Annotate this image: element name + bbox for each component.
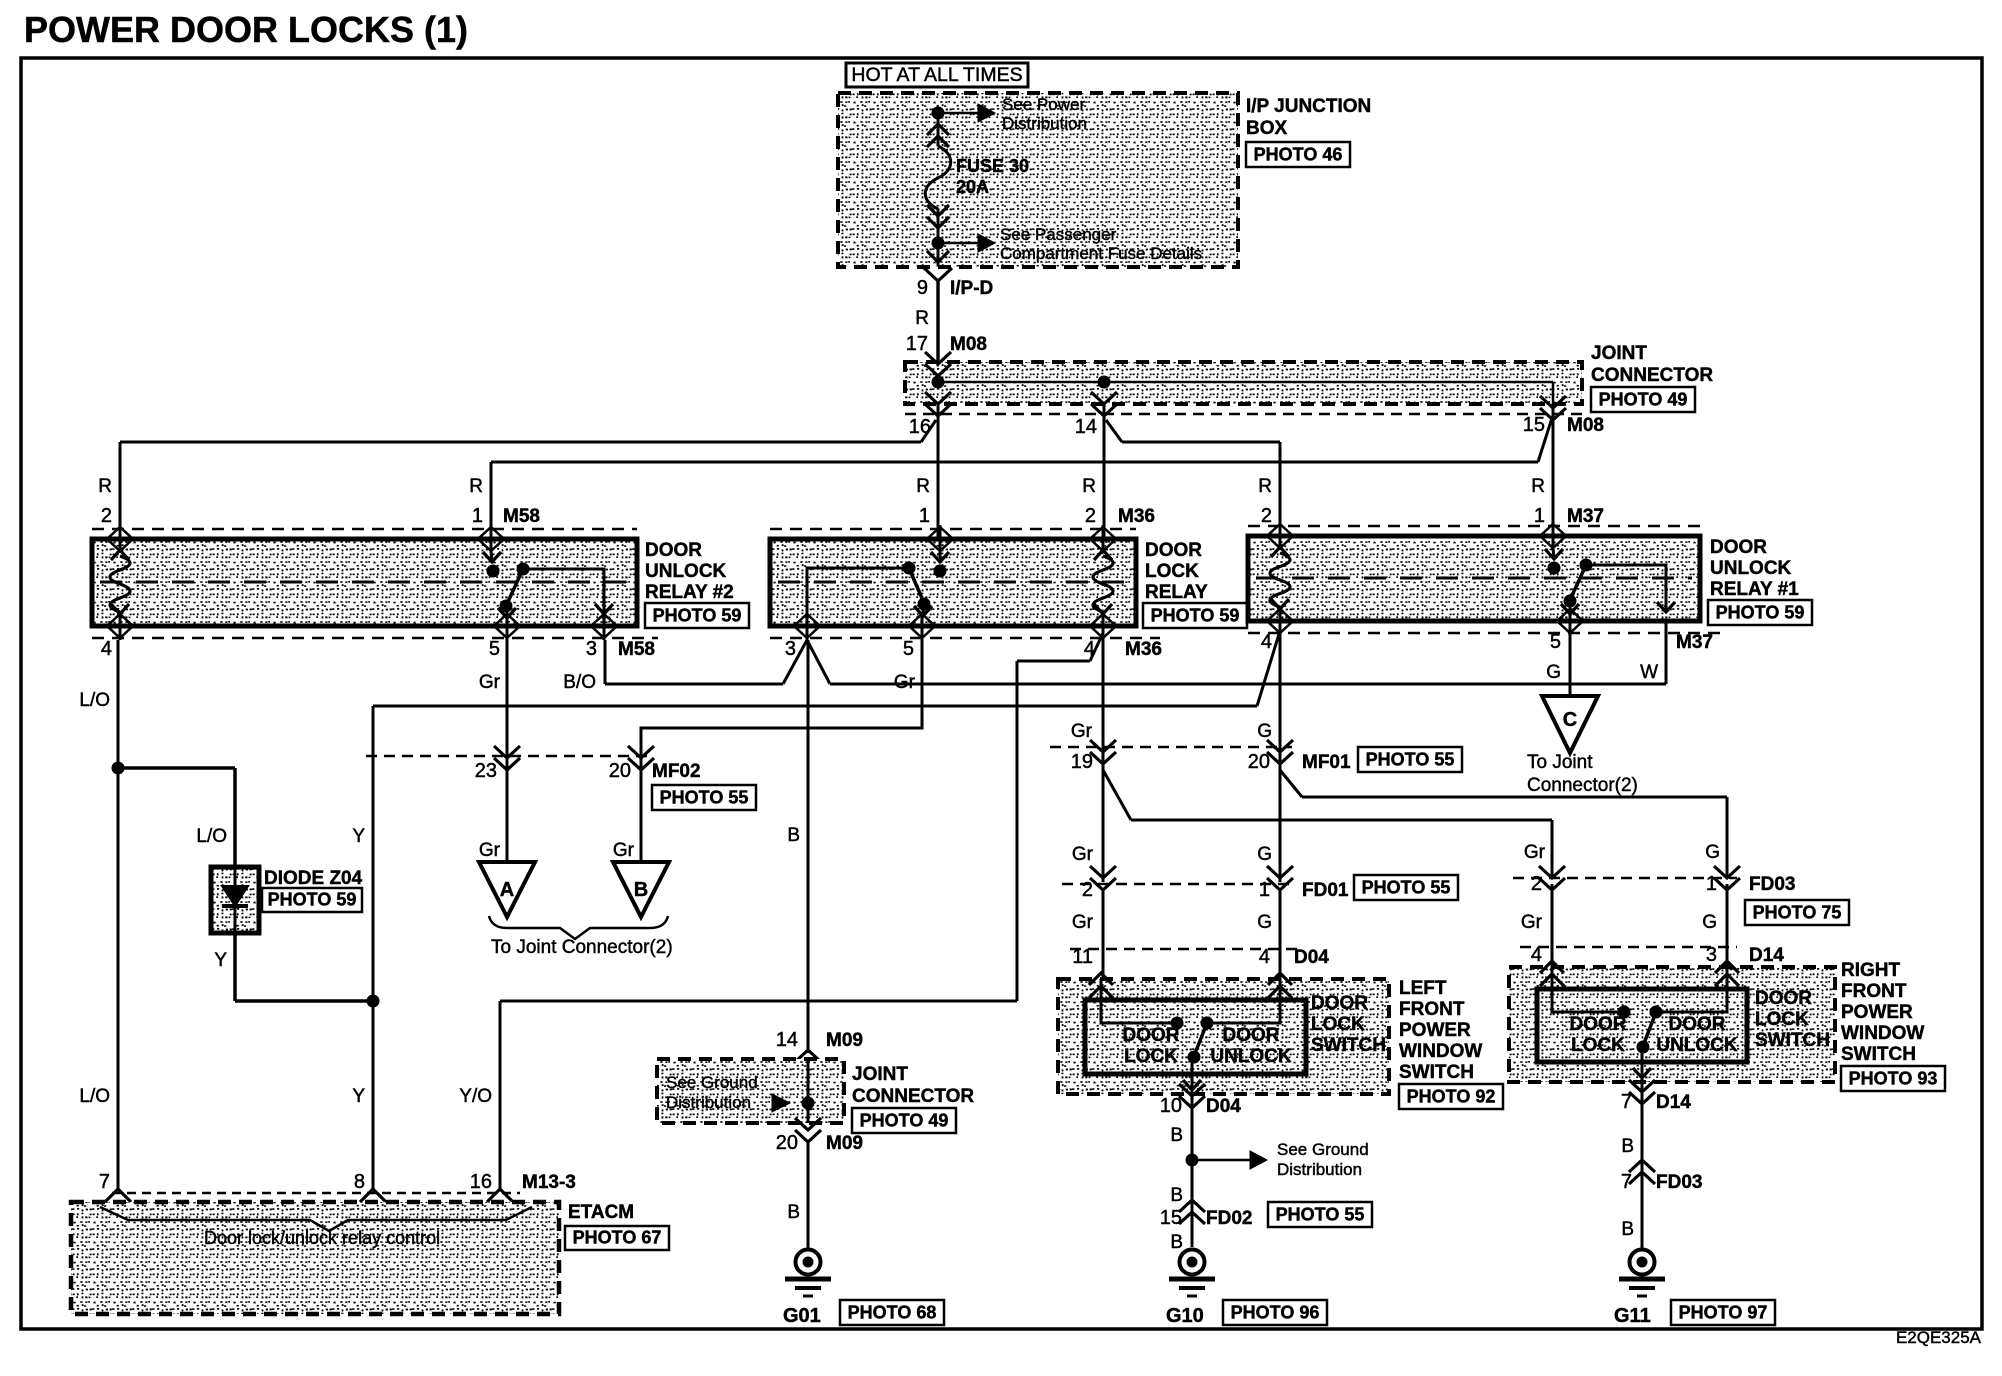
svg-text:DOOR: DOOR [1755, 988, 1812, 1009]
svg-text:M09: M09 [826, 1030, 863, 1051]
svg-text:Gr: Gr [1521, 912, 1543, 933]
wire G M36-4 straight down to MF01-19 [1102, 633, 1105, 882]
node diode branch [112, 762, 125, 775]
svg-text:20: 20 [776, 1132, 798, 1154]
svg-text:4: 4 [1261, 631, 1272, 653]
pin 1 M36 arrow [939, 525, 942, 553]
relay #2 coil [111, 550, 129, 560]
photo ref PHOTO 55 MF01 [1358, 747, 1462, 772]
svg-text:2: 2 [1085, 505, 1096, 527]
pin 1 M58 arrow [490, 525, 493, 553]
svg-text:PHOTO 92: PHOTO 92 [1407, 1087, 1496, 1107]
svg-text:SWITCH: SWITCH [1311, 1035, 1386, 1056]
svg-text:Distribution: Distribution [666, 1093, 751, 1112]
svg-text:BOX: BOX [1246, 118, 1288, 139]
wire fuse to lower tap [937, 209, 940, 265]
svg-text:20: 20 [609, 760, 631, 782]
svg-text:PHOTO 55: PHOTO 55 [1366, 750, 1455, 770]
pin 5 M37 [1569, 607, 1572, 635]
svg-text:23: 23 [475, 760, 497, 782]
svg-text:DOOR: DOOR [1123, 1025, 1180, 1046]
pin 4 D04 entry [1268, 973, 1292, 998]
pin 16 M13-3 entry [487, 1189, 513, 1215]
connector chevrons above fuse [927, 124, 949, 135]
ground G10 [1180, 1250, 1205, 1275]
svg-text:LOCK: LOCK [1755, 1009, 1809, 1030]
svg-text:M08: M08 [950, 334, 987, 355]
svg-text:Connector(2): Connector(2) [1527, 775, 1638, 796]
svg-text:R: R [1258, 476, 1272, 497]
svg-text:B: B [1170, 1232, 1183, 1253]
svg-text:CONNECTOR: CONNECTOR [852, 1086, 974, 1107]
photo ref PHOTO 59 M37 [1708, 600, 1812, 625]
svg-text:L/O: L/O [79, 1086, 110, 1107]
photo ref PHOTO 67 [565, 1226, 669, 1250]
svg-text:PHOTO 67: PHOTO 67 [573, 1228, 662, 1248]
svg-text:2: 2 [1261, 505, 1272, 527]
svg-text:3: 3 [1706, 944, 1717, 966]
svg-text:SWITCH: SWITCH [1755, 1030, 1830, 1051]
wire to pin 10 D04 [1191, 1057, 1194, 1247]
wire ETACM-8 / M37-4 net (long horizontal) [373, 705, 1257, 708]
fuse FUSE 30 20A [925, 146, 951, 209]
svg-text:UNLOCK: UNLOCK [1710, 558, 1792, 579]
wire to diode Z04 [118, 766, 235, 770]
svg-text:L/O: L/O [196, 826, 227, 847]
node Y junction [367, 995, 380, 1008]
svg-text:D14: D14 [1656, 1092, 1691, 1113]
svg-text:5: 5 [489, 638, 500, 660]
photo ref PHOTO 55 MF02 [652, 785, 756, 810]
left switch internal wires [1101, 979, 1171, 1023]
relay M37 switch contacts [1548, 562, 1561, 575]
photo ref PHOTO 55 FD02 [1268, 1202, 1372, 1227]
pin 7 M13-3 entry [105, 1189, 131, 1215]
node bus junction 16 [932, 376, 945, 389]
relay M37 coil [1271, 547, 1289, 557]
svg-text:7: 7 [1621, 1091, 1632, 1113]
wire B to G01 [807, 1140, 810, 1249]
connector FD03 pin 1 [1714, 866, 1740, 890]
wire to pin 7 D14 [1641, 1047, 1644, 1249]
wire pin14 to M36 pin2 and M37 pin2 (R) [1103, 404, 1106, 539]
relay box DOOR UNLOCK RELAY #2 [92, 528, 637, 531]
connector MF02 dashed line [366, 755, 648, 758]
svg-text:R: R [915, 308, 929, 329]
wire through joint connector [807, 1059, 810, 1123]
svg-text:MF01: MF01 [1302, 752, 1351, 773]
svg-text:CONNECTOR: CONNECTOR [1591, 365, 1713, 386]
svg-text:9: 9 [917, 277, 928, 299]
svg-text:POWER DOOR LOCKS (1): POWER DOOR LOCKS (1) [24, 9, 468, 50]
connector MF02 pin 20 [628, 746, 654, 770]
connector mating dashed line [905, 413, 1582, 416]
svg-text:PHOTO 59: PHOTO 59 [1151, 606, 1240, 626]
ground G01 [796, 1250, 821, 1275]
connector D14 dashed line [1520, 946, 1737, 949]
svg-text:FUSE 30: FUSE 30 [956, 156, 1029, 176]
svg-text:Distribution: Distribution [1277, 1160, 1362, 1179]
connector FD01 pin 2 [1090, 866, 1116, 890]
pin 2 M37 [1279, 522, 1282, 550]
svg-text:4: 4 [101, 638, 112, 660]
photo ref PHOTO 59 relay#2 [645, 603, 749, 628]
svg-text:See Passenger: See Passenger [1000, 225, 1117, 244]
svg-text:5: 5 [1550, 631, 1561, 653]
svg-text:A: A [500, 879, 514, 901]
svg-text:4: 4 [1259, 946, 1270, 968]
diode Z04 [211, 867, 259, 933]
svg-text:17: 17 [906, 333, 928, 355]
pin 8 M13-3 entry [360, 1189, 386, 1215]
svg-text:PHOTO 68: PHOTO 68 [848, 1303, 937, 1323]
branch MF01-20 to FD03-1 (G) [1280, 770, 1302, 797]
pin 5 M58 [506, 612, 509, 640]
wire L/O M58-4 to ETACM-7 [117, 640, 120, 1190]
svg-text:PHOTO 49: PHOTO 49 [860, 1111, 949, 1131]
wire Y/O jog M36-4 to ETACM-16 [1090, 633, 1103, 661]
svg-text:Y: Y [352, 1086, 365, 1107]
svg-text:Gr: Gr [479, 840, 501, 861]
svg-text:PHOTO 97: PHOTO 97 [1679, 1303, 1768, 1323]
svg-text:PHOTO 75: PHOTO 75 [1753, 903, 1842, 923]
svg-text:Y: Y [352, 826, 365, 847]
connector D04 pin 10 [1179, 1084, 1205, 1108]
pin 5 M36 [921, 612, 924, 640]
switch box LEFT FRONT POWER WINDOW SWITCH [1058, 979, 1389, 1094]
wire I/P-D to M08 pin 17 [936, 281, 939, 376]
ETACM box [71, 1202, 559, 1314]
svg-text:M37: M37 [1567, 506, 1604, 527]
svg-text:7: 7 [99, 1171, 110, 1193]
svg-text:M36: M36 [1118, 506, 1155, 527]
connector-to-joint triangle A [479, 862, 535, 917]
relay M36 switch contacts [934, 565, 947, 578]
svg-text:8: 8 [354, 1171, 365, 1193]
svg-text:POWER: POWER [1399, 1020, 1471, 1041]
svg-text:PHOTO 49: PHOTO 49 [1599, 390, 1688, 410]
svg-text:PHOTO 59: PHOTO 59 [653, 606, 742, 626]
svg-text:DOOR: DOOR [645, 540, 702, 561]
svg-text:M09: M09 [826, 1133, 863, 1154]
svg-text:10: 10 [1160, 1095, 1182, 1117]
svg-text:R: R [1531, 476, 1545, 497]
pin 4 M36 [1102, 612, 1105, 640]
svg-text:3: 3 [586, 638, 597, 660]
svg-text:C: C [1563, 709, 1577, 731]
svg-text:FRONT: FRONT [1399, 999, 1465, 1020]
connector FD03 dashed line [1513, 877, 1737, 880]
pin 3 M58 [603, 612, 606, 640]
wires FD01 to D04 [1102, 890, 1105, 979]
pin 2 M58 [119, 525, 122, 553]
arrow See Ground Distribution (right) [1192, 1159, 1250, 1162]
svg-text:I/P JUNCTION: I/P JUNCTION [1246, 96, 1371, 117]
svg-text:PHOTO 55: PHOTO 55 [1362, 878, 1451, 898]
svg-text:LEFT: LEFT [1399, 978, 1447, 999]
svg-text:RELAY: RELAY [1145, 582, 1208, 603]
svg-text:WINDOW: WINDOW [1841, 1023, 1924, 1044]
svg-text:Y: Y [214, 950, 227, 971]
photo ref PHOTO 93 [1841, 1066, 1945, 1091]
joint connector box (top) [905, 362, 1582, 404]
node bottom joint connector [802, 1097, 815, 1110]
svg-text:I/P-D: I/P-D [950, 278, 993, 299]
node power distribution tap [932, 107, 945, 120]
svg-text:DOOR: DOOR [1710, 537, 1767, 558]
connector D14 pin 7 [1629, 1080, 1655, 1104]
svg-text:FD03: FD03 [1656, 1172, 1702, 1193]
wire M58 pin1 to M08 pin15 (R) [491, 461, 1538, 464]
svg-text:JOINT: JOINT [1591, 343, 1647, 364]
branch MF01-19 to FD03-2 (Gr) [1103, 770, 1131, 820]
pin 3 M36 [806, 612, 809, 640]
svg-text:15: 15 [1160, 1207, 1182, 1229]
svg-text:Compartment Fuse Details: Compartment Fuse Details [1000, 244, 1202, 263]
svg-text:M13-3: M13-3 [522, 1172, 576, 1193]
pin 14 M08 exit chevron [1091, 392, 1117, 416]
node bus junction 14 [1098, 376, 1111, 389]
svg-text:2: 2 [1531, 873, 1542, 895]
connector FD02 pin 15 [1179, 1200, 1205, 1224]
svg-text:M37: M37 [1676, 632, 1713, 653]
wire contact to pin 3 [523, 569, 604, 612]
svg-text:D04: D04 [1294, 947, 1329, 968]
relay box DOOR LOCK RELAY [770, 528, 1136, 531]
svg-text:Gr: Gr [1072, 844, 1094, 865]
switch box RIGHT FRONT POWER WINDOW SWITCH [1509, 967, 1835, 1082]
relay M36 coil [1094, 550, 1112, 560]
wire contact to pin 5 [506, 606, 507, 616]
svg-text:UNLOCK: UNLOCK [1656, 1035, 1738, 1056]
svg-text:B: B [1621, 1219, 1634, 1240]
svg-text:4: 4 [1531, 944, 1542, 966]
svg-text:7: 7 [1621, 1171, 1632, 1193]
svg-text:PHOTO 93: PHOTO 93 [1849, 1069, 1938, 1089]
svg-text:19: 19 [1071, 751, 1093, 773]
svg-text:11: 11 [1072, 946, 1093, 968]
photo ref PHOTO 68 [840, 1300, 944, 1325]
pin 4 M58 [119, 612, 122, 640]
connector FD03 pin 2 [1539, 866, 1565, 890]
connector FD01 dashed line [1062, 883, 1295, 886]
svg-text:B: B [787, 825, 800, 846]
svg-text:D04: D04 [1206, 1096, 1241, 1117]
svg-text:PHOTO 59: PHOTO 59 [1716, 603, 1805, 623]
svg-text:20: 20 [1248, 751, 1270, 773]
svg-text:14: 14 [776, 1029, 798, 1051]
node ground distribution tap [1186, 1154, 1199, 1167]
svg-text:DOOR: DOOR [1223, 1025, 1280, 1046]
svg-text:DOOR: DOOR [1311, 993, 1368, 1014]
svg-text:RELAY #2: RELAY #2 [645, 582, 734, 603]
svg-text:G10: G10 [1166, 1305, 1204, 1327]
svg-text:Gr: Gr [1071, 721, 1093, 742]
svg-text:3: 3 [785, 638, 796, 660]
svg-text:POWER: POWER [1841, 1002, 1913, 1023]
svg-text:D14: D14 [1749, 945, 1784, 966]
svg-text:SWITCH: SWITCH [1841, 1044, 1916, 1065]
arrow to See Passenger Compartment Fuse Details [938, 242, 978, 245]
photo ref PHOTO 59 M36 [1143, 603, 1247, 628]
svg-text:16: 16 [470, 1171, 492, 1193]
photo ref PHOTO 55 FD01 [1354, 875, 1458, 900]
svg-text:B/O: B/O [563, 672, 596, 693]
arrow into joint connector [772, 1094, 790, 1112]
svg-text:MF02: MF02 [652, 761, 701, 782]
joint connector bus wire [938, 381, 1553, 384]
photo ref PHOTO 59 diode [262, 888, 362, 912]
svg-text:LOCK: LOCK [1311, 1014, 1365, 1035]
ETACM connector dashed line [112, 1192, 520, 1195]
svg-text:WINDOW: WINDOW [1399, 1041, 1482, 1062]
svg-text:M58: M58 [618, 639, 655, 660]
svg-text:1: 1 [1534, 505, 1545, 527]
svg-text:LOCK: LOCK [1124, 1046, 1178, 1067]
connector chevrons below fuse [927, 205, 949, 216]
svg-text:LOCK: LOCK [1571, 1035, 1625, 1056]
wire M37-4 down to MF01-20 [1279, 633, 1282, 882]
svg-text:JOINT: JOINT [852, 1064, 908, 1085]
label HOT AT ALL TIMES [846, 63, 1028, 87]
svg-text:R: R [98, 476, 112, 497]
pin 15 M08 exit chevron [1540, 396, 1566, 420]
svg-text:2: 2 [101, 505, 112, 527]
svg-text:RIGHT: RIGHT [1841, 960, 1901, 981]
door lock switch box (right) [1537, 989, 1747, 1062]
svg-text:B: B [1170, 1125, 1183, 1146]
connector MF02 pin 23 [494, 746, 520, 770]
underbrace to joint connector [489, 916, 668, 939]
svg-text:DOOR: DOOR [1669, 1014, 1726, 1035]
svg-text:Door lock/unlock relay control: Door lock/unlock relay control [204, 1228, 440, 1248]
svg-text:R: R [469, 476, 483, 497]
pin 1 M37 arrow [1552, 522, 1555, 550]
svg-text:M36: M36 [1125, 639, 1162, 660]
svg-text:FD02: FD02 [1206, 1208, 1252, 1229]
pin 16 M08 exit chevron [925, 392, 951, 416]
svg-text:B: B [634, 879, 648, 901]
svg-text:LOCK: LOCK [1145, 561, 1199, 582]
left switch lever [1194, 1023, 1207, 1056]
svg-text:FRONT: FRONT [1841, 981, 1907, 1002]
pin 17 M08 entry chevron [925, 352, 951, 376]
wire B M36-3 to M09-14 [807, 640, 810, 1053]
svg-text:G: G [1546, 662, 1561, 683]
ground G11 [1630, 1250, 1655, 1275]
photo ref PHOTO 49 bottom [852, 1108, 956, 1133]
svg-text:DOOR: DOOR [1570, 1014, 1627, 1035]
svg-text:M58: M58 [503, 506, 540, 527]
svg-text:B: B [1170, 1185, 1183, 1206]
svg-text:1: 1 [1706, 873, 1717, 895]
connector M09 pin 14 [795, 1050, 821, 1074]
connector MF01 dashed line [1050, 746, 1292, 749]
node passenger fuse tap [932, 237, 945, 250]
svg-text:PHOTO 55: PHOTO 55 [660, 788, 749, 808]
connector MF01 pin 19 [1090, 740, 1116, 764]
svg-text:PHOTO 96: PHOTO 96 [1231, 1303, 1320, 1323]
wire pin16 to relay#2 pin2 (R) [937, 404, 940, 539]
relay #2 switch contacts [487, 565, 500, 578]
svg-text:Y/O: Y/O [459, 1086, 492, 1107]
svg-text:G01: G01 [783, 1305, 821, 1327]
svg-text:Gr: Gr [613, 840, 635, 861]
photo ref PHOTO 49 [1591, 387, 1695, 412]
photo ref PHOTO 97 [1671, 1300, 1775, 1325]
svg-text:14: 14 [1075, 416, 1097, 438]
svg-text:DIODE Z04: DIODE Z04 [264, 868, 363, 889]
svg-text:G: G [1257, 912, 1272, 933]
svg-text:To Joint Connector(2): To Joint Connector(2) [491, 937, 673, 958]
svg-text:1: 1 [1259, 879, 1270, 901]
svg-text:W: W [1640, 662, 1658, 683]
svg-text:Gr: Gr [479, 672, 501, 693]
wire Gr M58-5 to MF02-23 [506, 640, 509, 862]
svg-text:ETACM: ETACM [568, 1202, 634, 1223]
svg-text:G: G [1705, 842, 1720, 863]
svg-text:G: G [1702, 912, 1717, 933]
svg-text:PHOTO 55: PHOTO 55 [1276, 1205, 1365, 1225]
connector-to-joint triangle B [613, 862, 669, 917]
photo ref PHOTO 92 [1399, 1084, 1503, 1109]
svg-text:UNLOCK: UNLOCK [645, 561, 727, 582]
pin 3 D14 entry [1715, 961, 1739, 986]
arrow to See Power Distribution [938, 112, 978, 115]
connector MF01 pin 20 [1267, 740, 1293, 764]
photo ref PHOTO 46 [1246, 142, 1350, 167]
svg-text:B: B [1621, 1136, 1634, 1157]
svg-text:See Power: See Power [1002, 95, 1085, 114]
wire Gr M36-5 to MF02-20 [641, 633, 922, 862]
svg-text:PHOTO 59: PHOTO 59 [268, 890, 357, 910]
svg-text:1: 1 [472, 505, 483, 527]
svg-text:Gr: Gr [1524, 842, 1546, 863]
joint connector box (bottom) [657, 1059, 844, 1123]
wire B/O net M58-3 to M36-3 to G/W (long horizontal) [604, 640, 607, 684]
connector M09 pin 20 [795, 1118, 821, 1142]
connector-to-joint triangle C [1542, 696, 1598, 753]
svg-text:1: 1 [919, 505, 930, 527]
door lock switch box (left) [1085, 1000, 1306, 1074]
pin 4 D14 entry [1540, 961, 1564, 986]
svg-text:G11: G11 [1614, 1305, 1651, 1327]
svg-text:FD01: FD01 [1302, 880, 1349, 901]
svg-text:RELAY #1: RELAY #1 [1710, 579, 1799, 600]
connector FD01 pin 1 [1267, 866, 1293, 890]
connector D04 dashed line [1070, 948, 1300, 951]
svg-text:PHOTO 46: PHOTO 46 [1254, 145, 1343, 165]
svg-text:Distribution: Distribution [1002, 114, 1087, 133]
svg-text:15: 15 [1523, 414, 1545, 436]
relay box DOOR UNLOCK RELAY #1 [1248, 525, 1700, 528]
wire G M37-5 to joint C [1569, 633, 1572, 696]
svg-text:See Ground: See Ground [1277, 1140, 1369, 1159]
wires FD03 to D14 [1551, 884, 1554, 967]
svg-text:R: R [1082, 476, 1096, 497]
wire pin15 to M37 pin1 (R) [1552, 404, 1555, 526]
right switch internal wires [1552, 967, 1618, 1012]
photo ref PHOTO 96 [1223, 1300, 1327, 1325]
svg-text:L/O: L/O [79, 690, 110, 711]
pin 11 D04 entry [1089, 973, 1113, 998]
I/P junction box (dashed) [838, 93, 1238, 267]
svg-text:2: 2 [1082, 879, 1093, 901]
wire battery feed [937, 108, 940, 146]
pin 2 M36 [1102, 525, 1105, 553]
photo ref PHOTO 75 FD03 [1745, 900, 1849, 925]
svg-text:See Ground: See Ground [666, 1073, 758, 1092]
